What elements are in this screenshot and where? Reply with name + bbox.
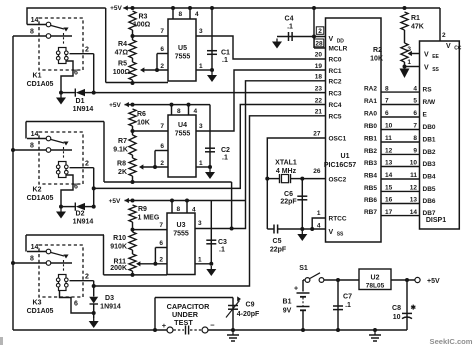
svg-text:V: V (329, 229, 334, 236)
svg-text:R7: R7 (118, 138, 127, 145)
svg-text:RB3: RB3 (364, 160, 377, 167)
svg-text:8: 8 (177, 108, 181, 115)
svg-text:D1: D1 (76, 98, 85, 105)
svg-text:SS: SS (337, 232, 344, 238)
svg-text:OSC2: OSC2 (329, 177, 347, 184)
svg-text:78L05: 78L05 (366, 283, 385, 290)
svg-text:21: 21 (315, 109, 323, 116)
svg-text:6: 6 (74, 70, 78, 77)
svg-text:+5V: +5V (110, 5, 122, 12)
svg-text:2: 2 (85, 47, 89, 54)
svg-text:1 MEG: 1 MEG (138, 215, 160, 222)
svg-text:RB0: RB0 (364, 123, 377, 130)
svg-text:7555: 7555 (175, 54, 191, 61)
svg-text:R3: R3 (139, 14, 148, 21)
svg-text:.1: .1 (345, 302, 351, 309)
svg-text:B1: B1 (283, 299, 292, 306)
svg-text:7: 7 (160, 28, 164, 35)
svg-text:R6: R6 (137, 111, 146, 118)
svg-text:R8: R8 (117, 161, 126, 168)
svg-text:2: 2 (442, 32, 446, 39)
svg-text:−: − (210, 321, 215, 330)
svg-text:3: 3 (198, 220, 202, 227)
svg-text:14: 14 (31, 131, 39, 138)
svg-text:4: 4 (195, 11, 199, 18)
svg-text:DB0: DB0 (423, 124, 436, 131)
svg-text:8: 8 (30, 29, 34, 36)
svg-text:11: 11 (410, 172, 417, 179)
svg-text:1N914: 1N914 (100, 304, 121, 311)
svg-text:100Ω: 100Ω (133, 22, 151, 29)
svg-text:5: 5 (413, 98, 417, 105)
svg-text:4: 4 (413, 85, 417, 92)
svg-text:D3: D3 (105, 295, 114, 302)
svg-text:1N914: 1N914 (73, 219, 94, 226)
svg-text:RC4: RC4 (329, 102, 342, 109)
svg-text:.1: .1 (222, 57, 228, 64)
svg-text:2: 2 (160, 63, 164, 70)
svg-text:10K: 10K (370, 56, 383, 63)
svg-text:U4: U4 (178, 122, 187, 129)
svg-text:3: 3 (199, 123, 203, 130)
svg-text:7: 7 (413, 123, 417, 130)
svg-text:13: 13 (385, 160, 393, 167)
svg-text:CD1A05: CD1A05 (27, 195, 54, 202)
svg-text:RC3: RC3 (329, 91, 342, 98)
svg-text:V: V (424, 65, 429, 72)
svg-text:22pF: 22pF (280, 199, 297, 206)
svg-text:17: 17 (385, 209, 393, 216)
svg-text:CC: CC (454, 46, 462, 52)
svg-text:RB4: RB4 (364, 173, 377, 180)
svg-text:R5: R5 (118, 61, 127, 68)
svg-text:28: 28 (315, 41, 323, 48)
svg-text:C6: C6 (284, 191, 293, 198)
svg-text:6: 6 (160, 143, 164, 150)
svg-text:8: 8 (30, 256, 34, 263)
svg-text:6: 6 (413, 110, 417, 117)
svg-text:22: 22 (315, 97, 323, 104)
svg-text:C3: C3 (218, 239, 227, 246)
svg-text:✱: ✱ (411, 304, 417, 312)
svg-text:6: 6 (74, 184, 78, 191)
svg-text:.1: .1 (219, 247, 225, 254)
svg-text:2: 2 (85, 274, 89, 281)
svg-text:PIC16C57: PIC16C57 (324, 162, 356, 169)
svg-text:15: 15 (385, 185, 393, 192)
svg-text:100Ω: 100Ω (113, 69, 131, 76)
svg-text:3: 3 (199, 28, 203, 35)
svg-text:RB2: RB2 (364, 148, 377, 155)
svg-text:RC5: RC5 (329, 113, 342, 120)
svg-text:+: + (162, 321, 167, 330)
svg-text:4 MHz: 4 MHz (276, 168, 297, 175)
svg-text:26: 26 (313, 168, 321, 175)
svg-text:7: 7 (385, 98, 389, 105)
svg-text:R1: R1 (411, 15, 420, 22)
svg-text:U2: U2 (371, 275, 380, 282)
svg-text:RA1: RA1 (364, 98, 377, 105)
svg-text:+: + (294, 286, 298, 293)
svg-text:1: 1 (199, 63, 203, 70)
svg-text:.1: .1 (287, 24, 293, 31)
svg-text:8: 8 (413, 135, 417, 142)
svg-text:DB2: DB2 (423, 149, 436, 156)
svg-text:+5V: +5V (427, 278, 440, 285)
svg-text:SS: SS (432, 67, 439, 73)
svg-text:27: 27 (313, 131, 321, 138)
svg-text:DB4: DB4 (423, 174, 436, 181)
svg-text:R9: R9 (138, 206, 147, 213)
svg-text:+5V: +5V (109, 102, 121, 109)
svg-text:D2: D2 (76, 211, 85, 218)
svg-text:19: 19 (315, 63, 323, 70)
svg-text:4-20pF: 4-20pF (237, 311, 260, 318)
svg-text:14: 14 (31, 17, 39, 24)
svg-text:C4: C4 (285, 16, 294, 23)
svg-text:6: 6 (159, 240, 163, 247)
svg-text:U3: U3 (177, 222, 186, 229)
svg-text:9.1K: 9.1K (113, 147, 128, 154)
svg-text:4: 4 (194, 108, 198, 115)
svg-text:DB7: DB7 (423, 210, 436, 217)
svg-text:1: 1 (198, 257, 202, 264)
svg-text:1: 1 (407, 59, 411, 66)
svg-text:14: 14 (31, 244, 39, 251)
svg-text:18: 18 (315, 74, 323, 81)
svg-text:MCLR: MCLR (329, 45, 348, 52)
svg-text:47Ω: 47Ω (115, 50, 129, 57)
svg-text:V: V (329, 36, 334, 43)
svg-text:200K: 200K (110, 265, 127, 272)
svg-text:2K: 2K (118, 169, 127, 176)
svg-text:V: V (424, 52, 429, 59)
svg-text:16: 16 (385, 197, 393, 204)
svg-text:R/W: R/W (423, 99, 437, 106)
svg-text:RB5: RB5 (364, 185, 377, 192)
svg-text:RC1: RC1 (329, 68, 342, 75)
svg-text:RB1: RB1 (364, 136, 377, 143)
svg-text:.1: .1 (222, 155, 228, 162)
svg-text:1N914: 1N914 (73, 106, 94, 113)
svg-text:22pF: 22pF (270, 247, 287, 254)
svg-text:OSC1: OSC1 (329, 136, 347, 143)
svg-text:S1: S1 (299, 265, 308, 272)
svg-text:DD: DD (337, 39, 345, 45)
svg-text:7: 7 (159, 222, 163, 229)
svg-text:8: 8 (385, 85, 389, 92)
svg-text:DB6: DB6 (423, 198, 436, 205)
svg-text:R2: R2 (373, 47, 382, 54)
svg-text:K3: K3 (33, 300, 42, 307)
svg-text:RTCC: RTCC (329, 216, 347, 223)
svg-text:+5V: +5V (109, 198, 121, 205)
svg-text:910K: 910K (110, 244, 127, 251)
svg-text:8: 8 (177, 206, 181, 213)
svg-text:DISP1: DISP1 (426, 217, 446, 224)
svg-text:RA2: RA2 (364, 86, 377, 93)
svg-text:DB1: DB1 (423, 137, 436, 144)
svg-text:V: V (446, 43, 451, 50)
svg-text:7555: 7555 (175, 131, 191, 138)
svg-text:TEST: TEST (174, 318, 193, 327)
svg-text:RC0: RC0 (329, 57, 342, 64)
svg-text:3: 3 (407, 46, 411, 53)
svg-text:K2: K2 (33, 187, 42, 194)
svg-text:10: 10 (393, 314, 401, 321)
svg-text:7: 7 (160, 123, 164, 130)
svg-text:47K: 47K (411, 24, 424, 31)
svg-text:4: 4 (317, 223, 321, 230)
svg-text:8: 8 (179, 11, 183, 18)
svg-text:6: 6 (385, 110, 389, 117)
svg-text:U1: U1 (341, 153, 350, 160)
svg-text:9: 9 (413, 148, 417, 155)
svg-text:12: 12 (410, 185, 418, 192)
svg-text:CD1A05: CD1A05 (27, 308, 54, 315)
svg-text:U5: U5 (178, 45, 187, 52)
svg-text:6: 6 (160, 46, 164, 53)
svg-text:2: 2 (85, 161, 89, 168)
svg-text:C8: C8 (392, 305, 401, 312)
svg-text:C7: C7 (343, 294, 352, 301)
svg-text:R10: R10 (113, 235, 126, 242)
svg-text:13: 13 (410, 197, 418, 204)
svg-text:2: 2 (318, 28, 322, 35)
svg-text:12: 12 (385, 148, 393, 155)
svg-text:C2: C2 (221, 147, 230, 154)
svg-text:EE: EE (432, 54, 439, 60)
svg-text:11: 11 (385, 135, 392, 142)
svg-text:7555: 7555 (173, 231, 189, 238)
svg-text:K1: K1 (33, 73, 42, 80)
svg-text:DB3: DB3 (423, 161, 436, 168)
svg-text:C9: C9 (246, 302, 255, 309)
svg-text:10: 10 (385, 123, 393, 130)
svg-text:10: 10 (410, 160, 418, 167)
svg-text:2: 2 (160, 160, 164, 167)
svg-text:RB7: RB7 (364, 209, 377, 216)
svg-text:23: 23 (315, 86, 323, 93)
svg-text:RS: RS (423, 87, 433, 94)
svg-text:C5: C5 (273, 238, 282, 245)
svg-text:1: 1 (317, 210, 321, 217)
svg-text:RC2: RC2 (329, 78, 342, 85)
svg-text:DB5: DB5 (423, 186, 436, 193)
svg-text:20: 20 (315, 51, 323, 58)
svg-text:2: 2 (159, 257, 163, 264)
svg-text:6: 6 (74, 301, 78, 308)
svg-text:E: E (423, 112, 428, 119)
svg-text:RA0: RA0 (364, 111, 377, 118)
svg-text:R4: R4 (118, 41, 127, 48)
svg-text:9V: 9V (283, 308, 292, 315)
svg-text:14: 14 (385, 172, 393, 179)
svg-text:4: 4 (192, 207, 196, 214)
svg-text:RB6: RB6 (364, 197, 377, 204)
svg-text:XTAL1: XTAL1 (275, 160, 297, 167)
svg-text:SeekIC.com: SeekIC.com (430, 337, 473, 346)
svg-text:10K: 10K (137, 120, 150, 127)
svg-text:CD1A05: CD1A05 (27, 81, 54, 88)
svg-text:C1: C1 (221, 50, 230, 57)
svg-text:1: 1 (199, 160, 203, 167)
svg-text:8: 8 (30, 143, 34, 150)
svg-text:14: 14 (410, 209, 418, 216)
